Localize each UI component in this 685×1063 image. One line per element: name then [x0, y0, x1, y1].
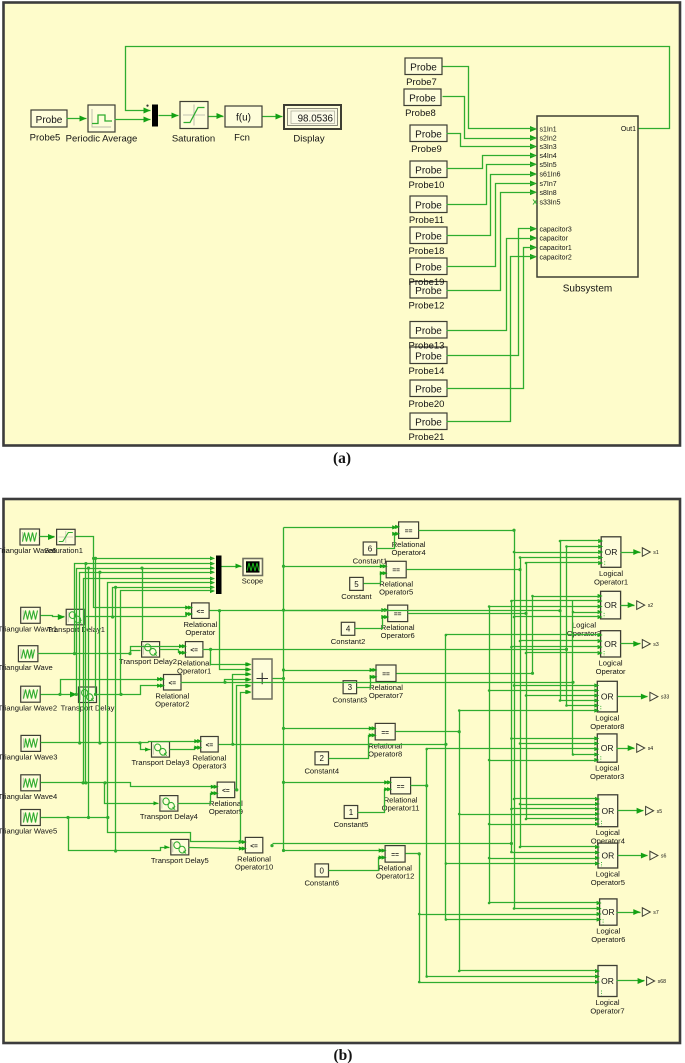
svg-text:Constant3: Constant3 — [333, 695, 368, 704]
svg-text:Transport Delay4: Transport Delay4 — [140, 812, 198, 821]
svg-text:s61In6: s61In6 — [540, 172, 561, 179]
svg-text:Probe19: Probe19 — [409, 277, 445, 288]
svg-text:Probe: Probe — [415, 231, 442, 242]
block Logical Operator8 (OR gate) — [597, 681, 617, 712]
svg-text:0: 0 — [320, 866, 325, 875]
wire Relational Operator2 to Sum — [181, 680, 251, 683]
wire branch Triangular Wave net vertical — [85, 564, 87, 783]
block Probe11 — [410, 196, 447, 213]
block Relational Operator2 (<=) — [164, 675, 182, 691]
wire Transport Delay1 to Mux1 input 7 — [113, 588, 214, 617]
wire Sum output trunk — [273, 528, 284, 679]
output port s7 — [642, 908, 650, 917]
wire Triangular Wave3 out — [41, 742, 149, 744]
wire Triangular Wave4 out — [41, 783, 216, 787]
wire Relational Operator3 output to trunk T11 — [233, 744, 446, 746]
wire trunk T11 to OR gate input — [446, 634, 600, 636]
svg-text:Operator6: Operator6 — [591, 935, 625, 944]
block Sum (+) — [253, 659, 273, 699]
wire Triangular Wave5 to Relational Operator10 — [108, 818, 244, 842]
wire OR output to port s1 — [621, 552, 641, 554]
svg-text:Constant1: Constant1 — [353, 557, 388, 566]
wire OR output to port s2 — [621, 605, 635, 607]
wire Sum to Relational Operator8 — [282, 727, 285, 730]
block Triangular Wave3 (Triangular Wave source) — [21, 735, 41, 751]
wire trunk T3 to OR gate input — [527, 562, 601, 564]
wire Probe9 to Subsystem — [447, 134, 536, 147]
wire trunk T1 to OR gate input — [515, 552, 601, 554]
wire OR output to port s4 — [617, 748, 635, 750]
svg-text:capacitor1: capacitor1 — [540, 245, 572, 252]
mux Mux (vertical bar) — [152, 105, 158, 127]
block Logical Operator5 (OR gate) — [598, 843, 618, 868]
svg-text:==: == — [381, 729, 389, 736]
svg-text:OR: OR — [605, 547, 618, 557]
block Logical Operator1 (OR gate) — [601, 537, 621, 568]
wire Triangular Wave3 to Mux1 input 4 — [80, 573, 214, 743]
svg-text:Operator8: Operator8 — [590, 722, 624, 731]
wire Probe7 to Subsystem — [443, 67, 536, 129]
svg-text:s7In7: s7In7 — [540, 181, 557, 188]
mux Mux1 (vertical bar) — [216, 556, 222, 595]
svg-text:Transport Delay5: Transport Delay5 — [151, 856, 209, 865]
output port s5 — [646, 806, 654, 815]
svg-text:Constant: Constant — [341, 592, 372, 601]
block Display — [284, 105, 341, 129]
svg-text:Operator10: Operator10 — [235, 863, 273, 872]
wire Triangular Wave2 to Transport Delay — [41, 694, 77, 696]
block Probe14 — [410, 347, 447, 364]
svg-text:s8In8: s8In8 — [540, 190, 557, 197]
wire Relational Operator3 to Sum — [219, 675, 251, 745]
svg-text:98.0536: 98.0536 — [298, 113, 334, 124]
svg-text:Operator5: Operator5 — [379, 587, 413, 596]
svg-text:<=: <= — [190, 647, 198, 654]
wire Transport Delay1 to Relational Operator — [187, 614, 191, 617]
block Triangular Wave4 (Triangular Wave source) — [21, 775, 41, 791]
svg-text:s5: s5 — [657, 809, 663, 815]
svg-text:s3: s3 — [653, 642, 659, 648]
wire OR output to port s33 — [618, 696, 648, 698]
output port s2 — [637, 601, 645, 610]
wire trunk T10 to OR gate input — [573, 754, 597, 756]
svg-text:Scope: Scope — [242, 577, 264, 586]
wire Relational Operator4 to trunk T1 — [419, 530, 515, 532]
wire Probe11 to Subsystem — [447, 165, 536, 205]
svg-text:Transport Delay3: Transport Delay3 — [132, 758, 190, 767]
svg-text:OR: OR — [601, 976, 614, 986]
wire trunk T11 — [445, 635, 447, 920]
svg-text:Probe10: Probe10 — [409, 180, 445, 191]
svg-text:Probe9: Probe9 — [411, 144, 442, 155]
wire trunk T7 — [419, 854, 421, 983]
svg-text:(a): (a) — [333, 450, 351, 467]
block Saturation — [180, 102, 208, 129]
wire Triangular Wave2 branch to Relational Operator2 — [61, 680, 163, 695]
wire trunk T3 to OR gate input — [527, 818, 597, 820]
svg-text:Saturation1: Saturation1 — [44, 546, 83, 555]
wire Relational Operator1 to Sum — [203, 650, 251, 665]
svg-text:OR: OR — [601, 806, 614, 816]
wire Constant3 to Relational Operator7 — [357, 677, 375, 688]
wire Relational Operator8 to trunk T5 — [396, 731, 460, 733]
wire trunk T1 — [514, 531, 516, 909]
wire trunk T12 to OR gate input — [490, 824, 597, 826]
wire Sum to Relational Operator11 — [282, 781, 285, 784]
block Transport Delay2 (Transport Delay) — [142, 642, 160, 658]
wire Sum to Relational Operator4 — [284, 527, 398, 529]
block Relational Operator5 (==) — [386, 561, 406, 578]
wire trunk T2 — [520, 558, 522, 847]
block Probe8 — [404, 89, 441, 106]
wire trunk T6 — [426, 749, 428, 977]
wire trunk T12 to OR gate input — [490, 606, 600, 608]
svg-text:Probe13: Probe13 — [409, 341, 445, 352]
output port s33 — [650, 692, 658, 701]
svg-text:Triangular Wave: Triangular Wave — [0, 663, 53, 672]
wire trunk T11 to OR gate input — [446, 863, 597, 865]
svg-text:s33: s33 — [661, 695, 669, 701]
wire Relational Operator7 to trunk T4 — [397, 673, 533, 675]
wire trunk T5 — [459, 711, 461, 971]
svg-text:Probe11: Probe11 — [409, 215, 444, 226]
wire branch Triangular Wave3 net vertical — [99, 573, 101, 743]
wire trunk T1 to OR gate input — [515, 685, 597, 687]
svg-text:<=: <= — [250, 843, 258, 850]
wire trunk T13 — [511, 601, 513, 853]
wire trunk T10 — [572, 601, 574, 755]
block Transport Delay1 (Transport Delay) — [66, 609, 84, 625]
svg-text:Display: Display — [293, 134, 324, 145]
svg-text:s4In4: s4In4 — [540, 153, 557, 160]
wire trunk T5 to OR gate input — [460, 814, 597, 816]
wire trunk T9 to OR gate input — [567, 705, 597, 707]
svg-text:capacitor: capacitor — [540, 236, 569, 243]
svg-text:Probe: Probe — [415, 326, 442, 337]
svg-text:Operator9: Operator9 — [209, 807, 243, 816]
wire trunk T5 to OR gate input — [460, 710, 597, 712]
wire Relational Operator6 to trunk T3 — [408, 613, 527, 615]
svg-text:s2: s2 — [648, 603, 654, 609]
svg-text:Fcn: Fcn — [234, 133, 250, 144]
wire Relational Operator output to trunk T8 — [220, 610, 247, 612]
block Probe13 — [410, 322, 447, 339]
block Saturation1 — [57, 529, 76, 545]
block Logical Operator6 (OR gate) — [600, 899, 617, 925]
wire Constant6 to Relational Operator12 — [329, 858, 384, 871]
svg-text:capacitor3: capacitor3 — [540, 226, 572, 233]
wire OR output to port s6 — [618, 855, 648, 857]
svg-text:Probe: Probe — [415, 351, 442, 362]
svg-text:Probe18: Probe18 — [409, 246, 445, 257]
svg-text:Probe: Probe — [415, 262, 442, 273]
svg-text:Probe8: Probe8 — [405, 108, 436, 119]
block Relational Operator11 (==) — [391, 777, 411, 794]
svg-text:Operator3: Operator3 — [192, 762, 226, 771]
wire trunk T1 to OR gate input — [515, 616, 600, 618]
wire Triangular Wave4 to Mux1 input 5 — [84, 579, 214, 783]
wire trunk T13 to OR gate input — [512, 852, 597, 854]
block Triangular Wave (Triangular Wave source) — [18, 646, 38, 662]
svg-text:(b): (b) — [334, 1047, 353, 1063]
svg-text:OR: OR — [604, 600, 617, 610]
wire Probe21 to Subsystem — [447, 257, 536, 422]
svg-text:Probe: Probe — [415, 129, 442, 140]
wire Triangular Wave3 to Relational Operator3 — [149, 742, 200, 743]
svg-text:s7: s7 — [653, 910, 659, 916]
wire Constant2 to Relational Operator6 — [355, 617, 387, 629]
wire trunk T2 to OR gate input — [521, 640, 600, 642]
svg-text:Out1: Out1 — [621, 126, 636, 133]
svg-text:3: 3 — [348, 683, 353, 692]
svg-text:2: 2 — [320, 754, 325, 763]
svg-text:Probe7: Probe7 — [406, 77, 437, 88]
wire OR output to port s68 — [617, 980, 645, 982]
block Relational Operator12 (==) — [385, 846, 405, 863]
wire Transport Delay2 to Relational Operator1 — [160, 650, 185, 653]
svg-text:Operator: Operator — [596, 667, 626, 676]
wire Probe18 to Subsystem — [447, 175, 536, 236]
wire trunk T7 to OR gate input — [420, 914, 599, 916]
block Transport Delay (Transport Delay) — [79, 687, 97, 703]
block Relational Operator8 (==) — [375, 723, 395, 740]
svg-text:s4: s4 — [648, 746, 654, 752]
block Probe21 — [410, 413, 447, 430]
svg-text:Operator7: Operator7 — [369, 691, 403, 700]
wire Relational Operator9 to Sum — [235, 686, 251, 790]
wire Mux1 to Scope — [222, 566, 242, 568]
svg-text:Operator5: Operator5 — [591, 878, 625, 887]
svg-text:Operator12: Operator12 — [376, 872, 414, 881]
wire trunk T12 — [489, 607, 491, 903]
block Relational Operator4 (==) — [399, 522, 419, 539]
svg-text:<=: <= — [197, 608, 205, 615]
svg-text:s1In1: s1In1 — [540, 127, 557, 134]
svg-text:s5In5: s5In5 — [540, 162, 557, 169]
wire Relational Operator10 output to trunk T13 — [270, 844, 273, 847]
block Relational Operator6 (==) — [388, 605, 408, 622]
svg-text:s68: s68 — [658, 979, 666, 985]
svg-text:Probe: Probe — [415, 200, 442, 211]
wire trunk T6 to OR gate input — [427, 748, 597, 750]
svg-text:1: 1 — [349, 808, 354, 817]
svg-text:Probe14: Probe14 — [409, 366, 445, 377]
wire trunk T1 to OR gate input — [515, 908, 599, 910]
wire trunk T3 — [526, 563, 528, 819]
block Triangular Wave5 (Triangular Wave source) — [21, 810, 41, 826]
svg-text:Triangular Wave2: Triangular Wave2 — [0, 703, 57, 712]
block Triangular Wave6 (Triangular Wave source) — [20, 529, 40, 545]
svg-text:Transport Delay: Transport Delay — [61, 704, 115, 713]
wire Relational Operator10 net to Sum — [241, 693, 251, 842]
svg-text:Probe20: Probe20 — [409, 399, 445, 410]
wire Relational Operator11 to trunk T6 — [411, 785, 427, 787]
block Constant5 (value 1) — [344, 806, 358, 819]
block Constant6 (value 0) — [315, 864, 329, 877]
svg-text:==: == — [392, 567, 400, 574]
svg-text:Triangular Wave5: Triangular Wave5 — [0, 827, 57, 836]
wire Relational Operator12 to trunk T7 — [406, 853, 420, 855]
panel (b) canvas — [4, 499, 681, 1043]
block Relational Operator (<=) — [192, 603, 210, 619]
block Constant4 (value 2) — [315, 752, 329, 765]
wire trunk T12 to OR gate input — [490, 760, 597, 762]
wire branch Saturation1 net vertical — [95, 559, 97, 695]
block Transport Delay3 (Transport Delay) — [152, 742, 170, 758]
wire OR output to port s3 — [621, 643, 641, 645]
block Scope — [243, 559, 263, 576]
wire Triangular Wave5 to Mux1 input 6 — [108, 583, 214, 818]
block Probe9 — [410, 125, 447, 142]
wire trunk T2 to OR gate input — [521, 743, 597, 745]
wire feedback from Out1 to Mux — [126, 47, 670, 129]
wire trunk T13 to OR gate input — [512, 646, 600, 648]
svg-text:<=: <= — [168, 680, 176, 687]
wire Sum to Relational Operator6 — [282, 609, 285, 612]
svg-text:Subsystem: Subsystem — [563, 284, 612, 295]
block Triangular Wave1 (Triangular Wave source) — [21, 607, 41, 623]
block Constant1 (value 6) — [363, 542, 377, 555]
svg-text:f(u): f(u) — [236, 112, 251, 123]
wire Transport Delay5 to Relational Operator10 — [189, 848, 244, 849]
wire Probe8 to Subsystem — [443, 97, 536, 139]
svg-text:4: 4 — [346, 625, 351, 634]
wire Transport Delay to Mux1 input 8 — [97, 591, 214, 695]
wire Mux to Saturation — [159, 115, 179, 117]
wire trunk T12 to OR gate input — [490, 902, 599, 904]
block Relational Operator3 (<=) — [201, 737, 219, 753]
wire trunk T7 to OR gate input — [420, 982, 597, 984]
wire Triangular Wave out — [38, 653, 131, 655]
wire Transport Delay4 to Relational Operator9 — [178, 794, 216, 804]
block Constant2 (value 4) — [341, 622, 355, 635]
output port s68 — [647, 977, 655, 986]
svg-text:<=: <= — [222, 787, 230, 794]
wire trunk T13 to OR gate input — [512, 600, 600, 602]
wire Relational Operator5 to trunk T2 — [407, 569, 521, 571]
wire trunk T4 to OR gate input — [533, 596, 600, 598]
wire Probe5 to Periodic Average — [67, 118, 87, 120]
wire Transport Delay to Relational Operator2 — [121, 686, 163, 695]
svg-text:Operator1: Operator1 — [594, 577, 628, 586]
wire Probe20 to Subsystem — [447, 248, 536, 389]
panel (a) canvas — [4, 3, 681, 446]
svg-text:Operator11: Operator11 — [382, 804, 420, 813]
svg-text:Operator2: Operator2 — [155, 700, 189, 709]
wire Probe14 to Subsystem — [447, 229, 536, 356]
wire Sum to Relational Operator12 — [282, 849, 285, 852]
svg-text:Probe12: Probe12 — [409, 301, 445, 312]
svg-text:Periodic Average: Periodic Average — [66, 134, 138, 145]
wire Probe13 to Subsystem — [447, 239, 536, 331]
wire trunk T9 to OR gate input — [567, 546, 601, 548]
svg-text:Triangular Wave3: Triangular Wave3 — [0, 753, 57, 762]
svg-text:s1: s1 — [653, 550, 659, 556]
wire trunk T9 — [566, 547, 568, 706]
svg-text:Operator8: Operator8 — [368, 750, 402, 759]
svg-text:Operator6: Operator6 — [381, 631, 415, 640]
svg-text:capacitor2: capacitor2 — [540, 254, 572, 261]
wire trunk T3 to OR gate input — [527, 695, 597, 697]
svg-text:Saturation: Saturation — [172, 134, 215, 145]
svg-text:Probe: Probe — [415, 165, 442, 176]
wire Relational Operator to Sum — [210, 611, 251, 670]
svg-text:OR: OR — [602, 907, 615, 917]
wire Constant4 to Relational Operator8 — [329, 736, 374, 759]
svg-text:6: 6 — [368, 544, 373, 553]
block Triangular Wave2 (Triangular Wave source) — [21, 686, 41, 702]
wire trunk T12 to OR gate input — [490, 690, 597, 692]
svg-text:Probe5: Probe5 — [30, 133, 61, 144]
wire OR output to port s5 — [618, 810, 644, 812]
block Probe20 — [410, 380, 447, 397]
wire Fcn to Display — [263, 116, 283, 118]
svg-text:Constant4: Constant4 — [304, 766, 339, 775]
svg-text:OR: OR — [601, 692, 614, 702]
svg-text:Operator: Operator — [185, 628, 215, 637]
wire trunk T8 to OR gate input — [561, 700, 597, 702]
wire Periodic Average to Mux — [115, 119, 151, 121]
svg-text:Probe21: Probe21 — [409, 432, 445, 443]
wire branch Triangular Wave2 net vertical — [88, 569, 90, 818]
block Probe10 — [410, 161, 447, 178]
wire trunk T10 to OR gate input — [573, 612, 600, 614]
svg-text:Probe: Probe — [36, 115, 63, 126]
wire branch Transport Delay1 net vertical — [115, 588, 117, 851]
wire Constant1 to Relational Operator4 — [377, 534, 398, 549]
wire trunk T2 to OR gate input — [521, 846, 597, 848]
svg-text:<=: <= — [206, 742, 214, 749]
block Periodic Average — [88, 105, 115, 132]
block Relational Operator9 (<=) — [217, 782, 235, 798]
wire Triangular Wave to Transport Delay2 — [131, 651, 141, 654]
svg-text:OR: OR — [601, 743, 614, 753]
output port s4 — [637, 744, 645, 753]
block Probe12 — [410, 282, 447, 299]
wire Triangular Wave2 to Mux1 input 3 — [77, 569, 214, 695]
svg-text:s3In3: s3In3 — [540, 144, 557, 151]
svg-text:==: == — [382, 671, 390, 678]
block Probe5 — [31, 110, 67, 127]
svg-text:==: == — [397, 783, 405, 790]
output port s1 — [642, 548, 650, 557]
svg-text:5: 5 — [354, 580, 359, 589]
svg-text:Probe: Probe — [415, 417, 442, 428]
wire Saturation1 branch to Relational Operator — [94, 559, 191, 608]
wire trunk T12 to OR gate input — [490, 858, 597, 860]
svg-text:Probe: Probe — [410, 62, 437, 73]
wire trunk T6 to OR gate input — [427, 976, 597, 978]
wire trunk T2 to OR gate input — [521, 804, 597, 806]
wire trunk T8 — [560, 541, 562, 701]
wire trunk T5 to OR gate input — [460, 970, 597, 972]
wire Sum trunk down — [283, 679, 285, 851]
wire trunk T3 to OR gate input — [527, 652, 600, 654]
wire Relational Operator2 output to trunk T10 — [223, 681, 226, 684]
wire Probe19 to Subsystem — [447, 184, 536, 267]
wire Triangular Wave to Mux1 input 2 — [75, 564, 214, 654]
block Transport Delay5 (Transport Delay) — [171, 839, 189, 855]
block Subsystem — [537, 116, 638, 277]
wire trunk T8 to OR gate input — [561, 540, 601, 542]
block Probe18 — [410, 227, 447, 244]
svg-text:Probe: Probe — [415, 384, 442, 395]
block Relational Operator1 (<=) — [185, 642, 203, 658]
wire Triangular Wave5 branch to Transport Delay5 — [69, 818, 170, 851]
svg-text:Constant6: Constant6 — [304, 879, 339, 888]
svg-text:OR: OR — [601, 851, 614, 861]
wire Triangular Wave6 to Saturation1 — [40, 536, 55, 538]
